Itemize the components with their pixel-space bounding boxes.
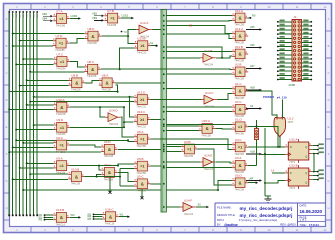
gate U8:A (99, 74, 116, 92)
svg-text:U14:D: U14:D (109, 109, 118, 113)
terminal IR1 top (12, 11, 14, 13)
wire (97, 176, 121, 178)
wire (13, 178, 68, 180)
label IR3 (19, 14, 20, 18)
label IR5 (26, 14, 27, 18)
nc marker below U5:C (141, 189, 143, 198)
gate U3:C (232, 138, 248, 156)
gate U15:A (199, 119, 216, 137)
svg-text:U3:B: U3:B (184, 140, 191, 144)
svg-text:D: D (328, 98, 330, 102)
junction on bus (163, 51, 165, 53)
wire or input 2 (281, 100, 283, 118)
gate U3:B (181, 140, 198, 158)
wire (265, 180, 285, 183)
wire (166, 111, 232, 113)
svg-text:74HC08: 74HC08 (87, 41, 97, 45)
wire (166, 73, 232, 75)
inverter U14:E (200, 153, 216, 170)
terminal A06 (246, 47, 259, 49)
wire bus line IR5 (26, 13, 28, 215)
wire (101, 68, 232, 70)
wire (27, 104, 54, 106)
wire (264, 128, 266, 196)
svg-text:74HC86: 74HC86 (56, 23, 66, 27)
gate U6:D (101, 140, 118, 158)
svg-text:74HC86: 74HC86 (234, 152, 244, 156)
wire J1 pin 30 (302, 78, 312, 80)
junction (29, 173, 31, 175)
wire (115, 82, 161, 84)
junction (29, 101, 31, 103)
wire (312, 175, 318, 177)
inverter U14:B (200, 49, 216, 66)
wire (166, 26, 232, 34)
svg-text:U5:C: U5:C (137, 175, 145, 179)
svg-text:U10:A: U10:A (56, 98, 64, 102)
wire J1 pin 6 (302, 29, 312, 31)
wire (70, 126, 124, 128)
wire (70, 18, 79, 20)
wire bus line IR3 (19, 13, 21, 215)
wire J1 pin 14 (302, 46, 312, 48)
wire (166, 144, 232, 146)
wire bus line IR4 (22, 13, 24, 215)
wire (23, 142, 53, 144)
terminal (93, 213, 102, 215)
wire (120, 48, 135, 69)
connector J1 (292, 15, 302, 81)
wire (151, 139, 232, 149)
svg-text:A08: A08 (250, 86, 255, 90)
wire (166, 57, 200, 59)
wire (166, 19, 232, 22)
wire (312, 179, 318, 181)
junction (19, 167, 21, 169)
junction on bus (163, 57, 165, 59)
net label T6 out (206, 206, 209, 209)
flip-flop U12:B (285, 164, 312, 191)
label IR7 (33, 14, 34, 18)
wire (152, 29, 161, 31)
wire (121, 117, 134, 137)
svg-text:U13:C: U13:C (137, 110, 146, 114)
svg-text:U11:B: U11:B (235, 45, 243, 49)
svg-text:74HC08: 74HC08 (71, 182, 81, 186)
svg-text:74HC86: 74HC86 (56, 150, 66, 154)
wire (120, 185, 134, 187)
junction (12, 45, 14, 47)
inverter U14:A (136, 21, 152, 38)
net label U16:B out (70, 216, 79, 218)
svg-text:W1: W1 (120, 212, 124, 216)
gate U10:B (68, 167, 85, 185)
wire J1 pin 22 (302, 62, 312, 64)
wire bus line IR6 (29, 13, 31, 215)
wire (99, 166, 101, 171)
gate U13:D (134, 90, 151, 108)
svg-text:74HC86: 74HC86 (56, 171, 66, 175)
wire row8 out -> U12:A D (248, 146, 285, 148)
wire J1 pin 27 (278, 74, 293, 76)
junction (12, 146, 14, 148)
gate U7:D (53, 34, 70, 52)
net label U13:B out (151, 45, 156, 47)
net label (318, 169, 323, 171)
junction (129, 96, 131, 98)
terminal (93, 216, 102, 218)
svg-text:U7:B: U7:B (107, 9, 114, 13)
svg-text:U3:A: U3:A (235, 156, 242, 160)
terminal (44, 214, 53, 216)
wire or output (279, 137, 281, 147)
wire J1 pin 1 (278, 21, 293, 23)
terminal IR7 top (33, 11, 35, 13)
svg-text:U2:C: U2:C (235, 100, 243, 104)
junction (264, 153, 266, 155)
terminal UB1 (43, 15, 51, 17)
svg-text:E: E (6, 125, 8, 129)
svg-text:▸4_119: ▸4_119 (276, 95, 287, 99)
gate U2:B (232, 63, 248, 81)
svg-text:U3:C: U3:C (235, 138, 243, 142)
svg-text:H: H (6, 206, 8, 210)
junction (117, 165, 119, 167)
junction on bus (163, 206, 165, 208)
svg-text:U9:D: U9:D (56, 118, 64, 122)
gate U7:C (54, 52, 71, 70)
junction (123, 121, 125, 123)
svg-text:74HC08: 74HC08 (201, 133, 211, 137)
wire row7 out -> D junction (248, 127, 278, 147)
wire J1 pin 18 (302, 54, 312, 56)
svg-text:74HC16: 74HC16 (56, 222, 66, 226)
terminal IR3 top (19, 11, 21, 13)
wire (198, 149, 233, 185)
svg-text:1 of 1: 1 of 1 (300, 218, 307, 222)
terminal IR4 bottom (22, 214, 24, 216)
svg-text:U10:B: U10:B (71, 167, 79, 171)
svg-text:DATE:: DATE: (300, 204, 308, 208)
or-gate input pin stubs (276, 114, 278, 119)
gate U13:C (134, 110, 151, 128)
svg-text:U16:C: U16:C (105, 208, 114, 212)
svg-text:U13:A: U13:A (235, 27, 243, 31)
wire (23, 58, 53, 60)
svg-text:ADDR: ADDR (289, 84, 296, 87)
junction on bus (163, 148, 165, 150)
svg-text:74HC08: 74HC08 (71, 88, 81, 92)
svg-text:≥1: ≥1 (140, 118, 144, 122)
svg-text:74HC86: 74HC86 (56, 66, 66, 70)
svg-text:E: E (328, 125, 330, 129)
gate U13:A (232, 27, 248, 45)
junction (127, 139, 129, 141)
svg-text:B8: B8 (189, 24, 193, 28)
junction (279, 146, 281, 148)
svg-text:Y0: Y0 (124, 30, 128, 34)
wire (101, 36, 134, 43)
wire (20, 40, 54, 42)
wire (9, 151, 101, 153)
wire J1 pin 25 (278, 70, 293, 72)
svg-text:H: H (328, 206, 330, 210)
wire (30, 173, 68, 175)
wire (70, 106, 124, 108)
wire (166, 47, 222, 58)
wire (312, 171, 318, 173)
wire row9 out (248, 164, 256, 166)
junction (33, 96, 35, 98)
junction on bus (163, 111, 165, 113)
gate U8:C (84, 60, 101, 78)
wire (312, 154, 314, 172)
gate U1:D (232, 118, 248, 136)
wire (166, 150, 181, 152)
wire J1 pin 4 (302, 25, 312, 27)
svg-text:74HC86: 74HC86 (107, 23, 117, 27)
junction (313, 153, 315, 155)
junction on bus (163, 146, 165, 148)
terminal L9 (246, 180, 259, 182)
border band tint (4, 4, 330, 9)
svg-text:D: D (6, 98, 8, 102)
junction on bus (163, 73, 165, 75)
junction (12, 178, 14, 180)
inverter U14:D (105, 109, 121, 126)
svg-text:U12:B: U12:B (289, 164, 297, 168)
svg-text:UB3: UB3 (92, 16, 98, 20)
svg-text:G: G (327, 179, 329, 183)
svg-text:U14:F: U14:F (184, 198, 192, 202)
junction (15, 129, 17, 131)
wire J1 pin 15 (278, 50, 293, 52)
wire (85, 81, 99, 83)
label IR0 (9, 14, 10, 18)
flip-flop U12:A (285, 138, 312, 165)
svg-text:U6:D: U6:D (104, 140, 112, 144)
svg-text:16.06.2020: 16.06.2020 (300, 209, 323, 214)
svg-text:DESIGN TITLE:: DESIGN TITLE: (217, 213, 236, 217)
gate U16:C (102, 208, 119, 226)
wire (151, 165, 162, 167)
label IR6 (30, 14, 31, 18)
svg-text:U1:2: U1:2 (288, 117, 294, 121)
svg-text:U8:A: U8:A (102, 74, 109, 78)
wire (128, 30, 136, 37)
wire (120, 167, 134, 169)
terminal (93, 218, 102, 220)
svg-text:4075: 4075 (288, 121, 294, 124)
gate U8:B (69, 74, 86, 92)
svg-text:74HC08: 74HC08 (56, 112, 66, 116)
wire (151, 118, 162, 120)
wire J1 pin 19 (278, 58, 293, 60)
net label U16:C out (119, 216, 127, 218)
junction (15, 63, 17, 65)
wire J1 pin 20 (302, 58, 312, 60)
wire (121, 17, 132, 19)
svg-text:G: G (5, 179, 7, 183)
gate U5:A (134, 130, 151, 148)
svg-text:74HC08: 74HC08 (234, 96, 244, 100)
junction on bus (163, 106, 165, 108)
wire (124, 121, 134, 123)
junction (8, 108, 10, 110)
terminal IR6 bottom (29, 214, 31, 216)
svg-text:B: B (6, 44, 8, 48)
svg-text:74HC86: 74HC86 (234, 132, 244, 136)
wire A1B to U12:A CLK (261, 153, 285, 155)
wire bus line IR7 (33, 13, 35, 215)
junction on bus (163, 119, 165, 121)
junction on bus (163, 88, 165, 90)
wire J1 pin 17 (278, 54, 293, 56)
inverter U14:C (201, 91, 217, 108)
terminal S2 (246, 108, 259, 110)
ground (265, 196, 272, 202)
wire J1 pin 16 (302, 50, 312, 52)
svg-text:U14:E: U14:E (204, 153, 212, 157)
svg-text:FILE NAME:: FILE NAME: (217, 206, 232, 210)
label IR1 (12, 14, 13, 18)
svg-text:U5:A: U5:A (137, 130, 144, 134)
svg-text:≥1: ≥1 (141, 44, 145, 48)
junction (15, 139, 17, 141)
terminal IR5 bottom (26, 214, 28, 216)
svg-text:74HC08: 74HC08 (234, 188, 244, 192)
terminal (44, 219, 53, 221)
svg-text:74HC04: 74HC04 (109, 122, 119, 126)
wire J1 pin 24 (302, 66, 312, 68)
junction (96, 176, 98, 178)
terminal IR2 top (15, 11, 17, 13)
svg-text:UB4: UB4 (42, 17, 48, 21)
svg-text:74HC08: 74HC08 (136, 189, 146, 193)
terminal A1B (246, 153, 259, 155)
gate U2:C (232, 100, 248, 118)
net label (318, 151, 323, 153)
wire bus line IR2 (15, 13, 17, 215)
svg-text:U9:C: U9:C (56, 136, 64, 140)
inverter U14:F (180, 198, 196, 215)
junction on bus (163, 183, 165, 185)
wire bus line IR0 (8, 13, 10, 215)
wire (13, 33, 85, 35)
gate U9:C (53, 136, 70, 154)
junction (217, 189, 219, 191)
wire (85, 175, 102, 177)
vertical bus (161, 10, 166, 213)
wire (151, 183, 162, 185)
wire (166, 51, 232, 53)
wire (166, 15, 232, 17)
junction (26, 162, 28, 164)
svg-text:74HC32: 74HC32 (136, 105, 146, 109)
junction (12, 33, 14, 35)
terminal A08 (246, 89, 259, 91)
junction on bus (163, 167, 165, 169)
svg-text:F:\proj\my_risc_decoder.pdsprj: F:\proj\my_risc_decoder.pdsprj (239, 218, 278, 222)
junction on bus (163, 125, 165, 127)
wire (312, 153, 318, 155)
junction (33, 124, 35, 126)
junction (264, 153, 266, 155)
svg-text:74HC08: 74HC08 (104, 154, 114, 158)
junction on bus (163, 130, 165, 132)
svg-text:POWER: POWER (263, 95, 275, 99)
gate U5:D (232, 174, 248, 192)
svg-text:C: C (328, 71, 330, 75)
wire (118, 172, 134, 181)
wire (166, 106, 232, 108)
wire J1 pin 28 (302, 74, 312, 76)
svg-text:74HC08: 74HC08 (101, 88, 111, 92)
wire U12:B D (272, 172, 285, 174)
svg-text:C: C (6, 71, 8, 75)
wire (166, 88, 232, 90)
terminal IR4 top (22, 11, 24, 13)
terminal A05 (246, 29, 259, 31)
gate U11:B (232, 45, 248, 63)
svg-text:U2:B: U2:B (235, 63, 242, 67)
svg-text:UB1: UB1 (42, 12, 48, 16)
wire J1 pin 5 (278, 29, 293, 31)
net label U5:D out (248, 182, 255, 184)
net label (318, 147, 323, 149)
net label R0 (248, 17, 249, 19)
terminal IR7 bottom (33, 214, 35, 216)
wire J1 pin 23 (278, 66, 293, 68)
junction (26, 104, 28, 106)
wire (16, 63, 53, 65)
wire J1 pin 10 (302, 37, 312, 39)
wire (13, 146, 54, 148)
gate U10:A (54, 98, 71, 116)
terminal IR3 bottom (19, 214, 21, 216)
junction (119, 176, 121, 178)
wire (256, 140, 258, 166)
label IR4 (23, 14, 24, 18)
svg-text:A06: A06 (250, 43, 255, 47)
wire (215, 127, 232, 130)
terminal IR8 top (36, 11, 38, 13)
svg-text:D: D (290, 145, 292, 149)
junction (221, 57, 223, 59)
net label U7:B out (131, 17, 134, 20)
wire (216, 161, 232, 164)
wire (34, 124, 54, 126)
svg-text:U1:C: U1:C (235, 82, 243, 86)
svg-text:U2D1: U2D1 (122, 14, 129, 18)
junction (119, 68, 121, 70)
wire (216, 56, 232, 58)
junction on bus (163, 82, 165, 84)
wire (16, 139, 128, 141)
svg-text:U8:B: U8:B (71, 74, 78, 78)
terminal IR1 bottom (12, 214, 14, 216)
svg-text:U5:D: U5:D (235, 174, 243, 178)
terminal IR6 top (29, 11, 31, 13)
svg-text:PATH:: PATH: (217, 218, 225, 222)
wire bus line IR1 (12, 13, 14, 215)
wire (123, 107, 125, 127)
junction on bus (163, 161, 165, 163)
wire (23, 189, 218, 191)
svg-text:U2D0: U2D0 (71, 14, 78, 18)
gate U6:C (101, 163, 118, 181)
gate U16:B (53, 208, 70, 226)
